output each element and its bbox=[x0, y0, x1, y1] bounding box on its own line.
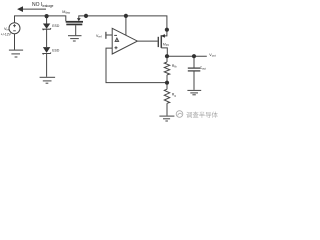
svg-text:ESD: ESD bbox=[52, 24, 60, 28]
svg-text:Mdep: Mdep bbox=[62, 10, 70, 15]
svg-text:NO Ileakage: NO Ileakage bbox=[32, 2, 54, 8]
svg-text:Cout: Cout bbox=[200, 66, 206, 71]
svg-text:+/-12V: +/-12V bbox=[1, 32, 12, 36]
svg-text:Vout: Vout bbox=[209, 53, 216, 58]
svg-text:Vin: Vin bbox=[4, 27, 9, 32]
svg-text:Rg: Rg bbox=[172, 93, 176, 98]
svg-text:调查半导体: 调查半导体 bbox=[186, 110, 219, 119]
svg-text:Vref: Vref bbox=[96, 34, 102, 39]
svg-text:MP2: MP2 bbox=[163, 42, 170, 47]
svg-text:Rfb: Rfb bbox=[172, 64, 177, 69]
svg-text:ESD: ESD bbox=[52, 48, 60, 52]
